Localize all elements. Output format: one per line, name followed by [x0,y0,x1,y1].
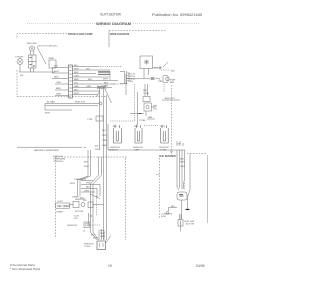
svg-text:LIMIT: LIMIT [134,150,140,152]
svg-text:WHT: WHT [103,79,109,81]
svg-text:FAN: FAN [170,81,174,84]
svg-text:ORG: ORG [160,126,165,128]
svg-text:*: * [25,150,26,152]
svg-text:WIRING DIAGRAM: WIRING DIAGRAM [96,21,132,26]
svg-text:WHT: WHT [100,233,106,235]
svg-text:RED: RED [74,72,79,74]
svg-text:WHT: WHT [84,166,90,168]
svg-text:PINK: PINK [86,183,92,185]
svg-text:WHT: WHT [74,93,80,95]
svg-text:(115 VOLTS 60Hz A/C): (115 VOLTS 60Hz A/C) [37,45,58,48]
svg-text:ORG: ORG [128,81,133,83]
svg-text:BLK: BLK [100,230,105,232]
svg-text:AIR DUCT: AIR DUCT [165,97,176,100]
svg-text:TSTAT: TSTAT [139,119,146,122]
svg-text:ORG: ORG [180,166,185,168]
svg-text:BLK: BLK [54,66,59,68]
svg-text:BLK: BLK [180,159,185,161]
svg-text:OR: OR [177,144,181,146]
svg-text:* Non-Illustrated Parts: * Non-Illustrated Parts [10,267,41,271]
svg-text:TSTAT: TSTAT [143,92,150,95]
svg-text:GRN: GRN [100,236,105,238]
svg-text:CONT: CONT [57,201,63,203]
svg-text:ORG: ORG [84,191,89,193]
svg-text:ICE MAKER: ICE MAKER [159,154,177,158]
svg-text:BLK: BLK [88,79,93,81]
svg-text:RED: RED [54,77,59,79]
svg-text:BLK: BLK [86,187,91,189]
svg-text:BLK: BLK [171,206,176,208]
svg-text:HEATER: HEATER [109,149,118,152]
svg-text:19: 19 [108,264,112,268]
svg-text:BLK: BLK [74,65,79,67]
svg-text:MTR: MTR [45,113,50,115]
svg-text:BLK: BLK [171,71,176,73]
svg-text:DEFROST: DEFROST [67,225,78,227]
svg-text:GRN: GRN [102,145,107,147]
svg-text:MOTOR: MOTOR [75,211,84,213]
svg-text:WHT: WHT [93,238,99,240]
svg-text:RED: RED [134,126,139,128]
svg-text:GRN: GRN [86,86,91,88]
svg-text:ORG: ORG [56,82,61,84]
svg-text:BLU: BLU [74,89,79,91]
svg-text:MULLION: MULLION [75,102,85,104]
svg-text:CONTROL: CONTROL [53,161,64,163]
svg-text:MACHINE COMPARTMENT: MACHINE COMPARTMENT [34,149,60,152]
svg-text:CORD: CORD [84,246,91,248]
svg-text:SW: SW [20,75,23,77]
svg-text:GLRT183TDW: GLRT183TDW [100,13,121,17]
svg-text:TOR-AF: TOR-AF [15,56,24,59]
svg-text:GRN: GRN [56,94,61,96]
svg-text:BLK: BLK [102,130,107,132]
svg-text:SW: SW [83,200,87,202]
svg-text:FAN: FAN [148,116,153,119]
svg-text:MOTOR: MOTOR [154,68,163,70]
svg-text:MTR: MTR [70,183,75,185]
svg-text:DEF TIMER: DEF TIMER [57,205,70,208]
svg-text:BRN: BRN [56,88,61,90]
svg-text:Publication No. 5995421645: Publication No. 5995421645 [152,12,203,17]
svg-text:TIMER MTR: TIMER MTR [74,179,87,181]
svg-text:SW: SW [74,218,78,220]
svg-text:WHT: WHT [95,149,100,151]
svg-text:04/05: 04/05 [196,264,205,268]
svg-text:BLK: BLK [113,126,118,128]
svg-text:TSTAT: TSTAT [160,149,167,152]
svg-text:WHT: WHT [74,68,80,70]
svg-text:TST: TST [153,109,158,111]
svg-text:BLK: BLK [95,146,99,148]
svg-text:ORG: ORG [102,140,107,142]
svg-text:DEF: DEF [143,90,148,92]
svg-text:ORG: ORG [103,86,108,88]
svg-text:ACITOR: ACITOR [186,223,195,226]
svg-text:CTRL: CTRL [87,119,93,121]
svg-text:TIMER: TIMER [56,212,63,214]
svg-text:BRN: BRN [74,79,79,81]
svg-text:FRESH FOOD COMP: FRESH FOOD COMP [68,33,93,36]
svg-text:WHT: WHT [102,135,108,137]
svg-text:ORG: ORG [74,75,79,77]
svg-text:WIRE DIAGRAM: WIRE DIAGRAM [110,33,129,36]
svg-text:DEF: DEF [153,106,158,108]
svg-text:TEMP: TEMP [48,58,55,60]
svg-text:BLK: BLK [84,162,89,164]
svg-text:GRN: GRN [74,86,79,88]
svg-text:AT BAR: AT BAR [47,101,55,104]
svg-text:WHT: WHT [54,71,60,73]
svg-text:BLK: BLK [104,82,109,84]
svg-text:BLK: BLK [91,235,96,237]
svg-text:SOR: SOR [161,216,166,218]
svg-text:WHT: WHT [180,162,186,164]
